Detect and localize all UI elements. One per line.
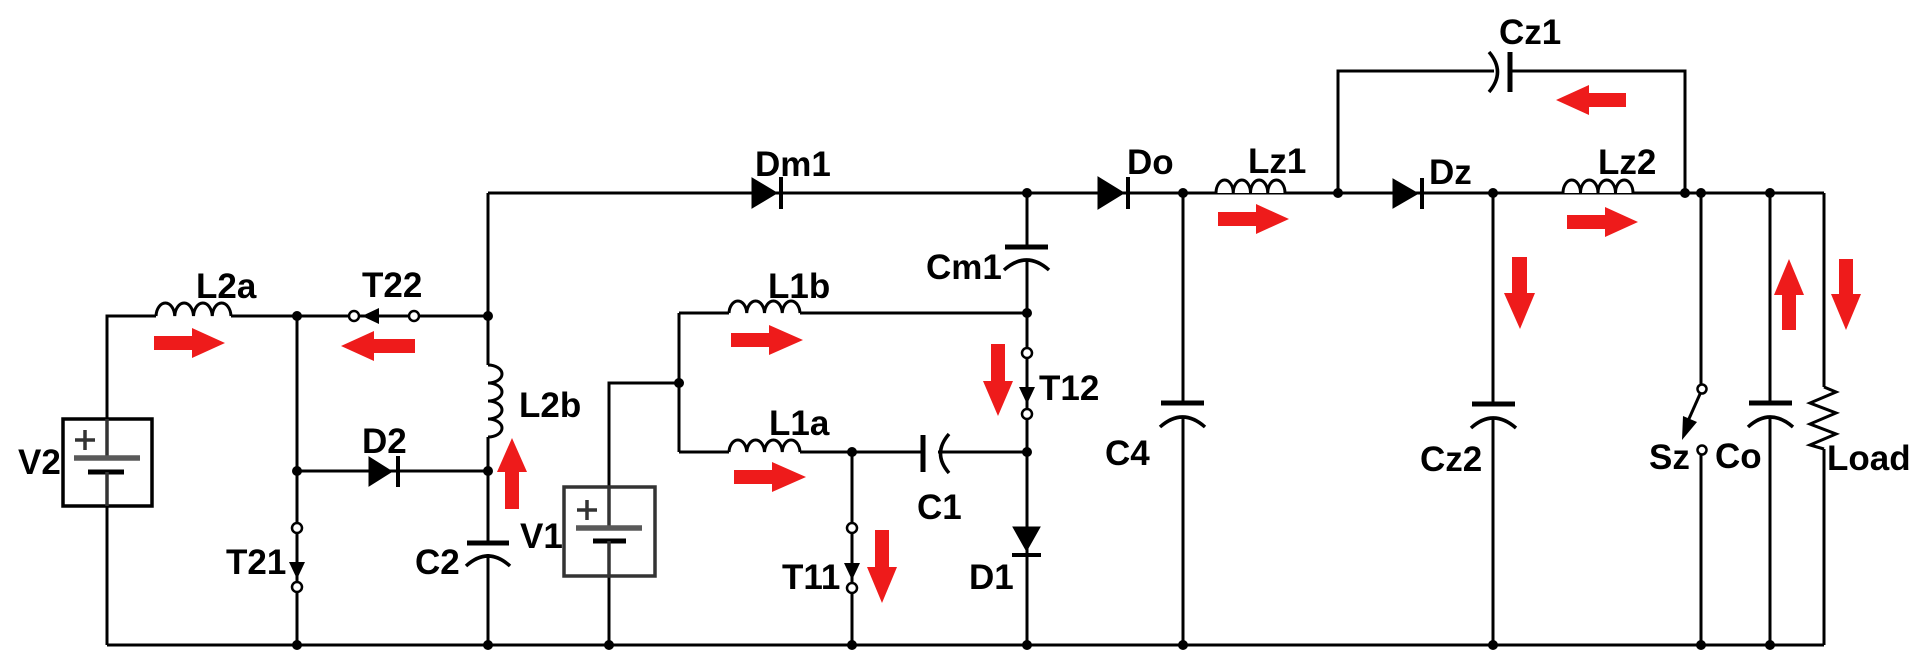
wire Load bottom (1823, 449, 1826, 645)
svg-text:T22: T22 (362, 266, 422, 305)
capacitor C4 (1160, 403, 1205, 427)
wire Cz2 branch (1492, 193, 1495, 404)
wire left vertical of x=488 branch (487, 193, 490, 365)
wire bottom main rail (107, 644, 1824, 647)
svg-text:Do: Do (1127, 143, 1174, 182)
svg-text:Dm1: Dm1 (755, 145, 831, 184)
svg-text:Cz2: Cz2 (1420, 440, 1482, 479)
node D2-L2b-C2 (483, 466, 493, 476)
arrow Co current (1774, 259, 1804, 330)
switch T11 (844, 523, 860, 593)
svg-text:T12: T12 (1039, 369, 1099, 408)
capacitor Co (1748, 403, 1793, 427)
node Co top (1765, 188, 1775, 198)
arrow T12 current (983, 344, 1013, 416)
svg-text:L1a: L1a (769, 404, 830, 443)
resistor Load (1810, 387, 1836, 449)
wire Load top (1823, 193, 1826, 387)
node V1 to L1 split (674, 378, 684, 388)
arrow Load current (1831, 259, 1861, 330)
wire V1 bottom lead (608, 576, 611, 645)
current arrows (red) (154, 85, 1861, 603)
inductor L2a (156, 303, 231, 316)
diode Do (1098, 177, 1128, 209)
node Cz2 top (1488, 188, 1498, 198)
node C2 bottom rail (483, 640, 493, 650)
battery V1 (564, 487, 655, 576)
node V1 bottom rail (604, 640, 614, 650)
svg-text:T11: T11 (782, 558, 840, 597)
arrow Lz2 current (1567, 207, 1638, 237)
node L1a-T11 (847, 447, 857, 457)
svg-text:Sz: Sz (1649, 438, 1690, 477)
switch Sz wire bottom (1700, 455, 1703, 645)
inductor L1b (729, 301, 800, 313)
wire Cz1 right (1510, 71, 1685, 193)
wire below L2b (487, 437, 490, 543)
battery V2 (63, 419, 152, 506)
diode D1 (1012, 527, 1041, 555)
node Cz2 bottom rail (1488, 640, 1498, 650)
wire top main rail (488, 192, 1824, 195)
diode Dz (1393, 178, 1422, 209)
node T22 right at L2b branch (483, 311, 493, 321)
wire L1a left (679, 451, 729, 454)
wire V2 top loop (107, 316, 156, 419)
arrow L2b current (497, 438, 527, 509)
inductor L2b (488, 365, 502, 437)
node C4 bottom rail (1178, 640, 1188, 650)
switch T12 (1019, 348, 1035, 419)
arrow L1a current (734, 462, 806, 492)
wire x=1027 vertical top (1026, 193, 1029, 247)
arrow L2a current (154, 328, 225, 358)
inductor Lz1 (1216, 180, 1285, 193)
node L1b right (1022, 308, 1032, 318)
node Sz bottom rail (1696, 640, 1706, 650)
wire C1 to node (938, 451, 1027, 454)
switch T11 wire (851, 452, 854, 645)
node T21-D2 (292, 466, 302, 476)
node Cz1 left tap (1333, 188, 1343, 198)
arrow Cz2 current (1504, 257, 1535, 329)
inductor Lz2 (1563, 180, 1633, 193)
inductor L1a (729, 440, 800, 452)
wire C4 branch (1182, 193, 1185, 403)
node Cz1 right tap (1680, 188, 1690, 198)
svg-text:L1b: L1b (768, 267, 830, 306)
wire L1b left (679, 312, 729, 315)
svg-text:T21: T21 (226, 543, 286, 582)
wire Co bottom (1769, 416, 1772, 645)
wire L1a to C1 (800, 451, 923, 454)
svg-text:L2a: L2a (196, 267, 257, 306)
wire Cz1 left vertical (1338, 71, 1494, 193)
diode D2 (369, 456, 398, 487)
node L2a-T21-T22 (292, 311, 302, 321)
svg-text:V1: V1 (520, 517, 563, 556)
svg-text:Dz: Dz (1429, 153, 1472, 192)
switch T21 (289, 523, 305, 592)
wire x=1027 vertical below Cm1 (1026, 260, 1029, 645)
node L1a right at T12-D1 (1022, 447, 1032, 457)
wire L1 split vertical (678, 313, 681, 452)
svg-text:D2: D2 (362, 422, 407, 461)
capacitor Cz1 (1489, 52, 1510, 92)
wire V2 bottom (106, 506, 109, 645)
svg-text:C1: C1 (917, 488, 962, 527)
svg-text:V2: V2 (18, 443, 61, 482)
arrow Cz1 current (1556, 85, 1626, 115)
wire V1 top lead (609, 383, 679, 487)
node Co bottom rail (1765, 640, 1775, 650)
svg-text:Cm1: Cm1 (926, 248, 1002, 287)
node D1 bottom rail (1022, 640, 1032, 650)
capacitor C1 (923, 434, 949, 473)
wire Co branch (1769, 193, 1772, 403)
svg-text:C4: C4 (1105, 434, 1150, 473)
svg-text:Cz1: Cz1 (1499, 13, 1561, 52)
capacitor Cm1 (1004, 247, 1049, 270)
node C4 top (1178, 188, 1188, 198)
arrow Lz1 current (1218, 204, 1289, 234)
wire L1b right (800, 312, 1027, 315)
arrow L1b current (731, 325, 803, 355)
svg-text:D1: D1 (969, 558, 1014, 597)
wire D2 branch (297, 470, 488, 473)
capacitor Cz2 (1471, 404, 1516, 428)
switch Sz wire top (1700, 193, 1703, 384)
svg-text:Co: Co (1715, 437, 1762, 476)
diode Dm1 (752, 177, 781, 209)
wire L2a to x488 (231, 315, 488, 318)
wire C4 bottom (1182, 416, 1185, 645)
wire Cz2 bottom (1492, 417, 1495, 645)
node Sz top (1696, 188, 1706, 198)
svg-text:Load: Load (1827, 439, 1911, 478)
arrow T22 current (341, 331, 415, 361)
svg-text:C2: C2 (415, 543, 460, 582)
switch T22 (349, 308, 419, 324)
wire below C2 (487, 554, 490, 645)
svg-text:Lz2: Lz2 (1598, 143, 1656, 182)
svg-text:L2b: L2b (519, 386, 581, 425)
capacitor C2 (466, 543, 510, 566)
node Cm1 top at rail (1022, 188, 1032, 198)
node T21 bottom rail (292, 640, 302, 650)
switch T21 wire (296, 316, 299, 645)
switch Sz (1682, 385, 1707, 455)
node T11 bottom rail (847, 640, 857, 650)
arrow T11 current (867, 530, 897, 603)
svg-text:Lz1: Lz1 (1248, 142, 1306, 181)
